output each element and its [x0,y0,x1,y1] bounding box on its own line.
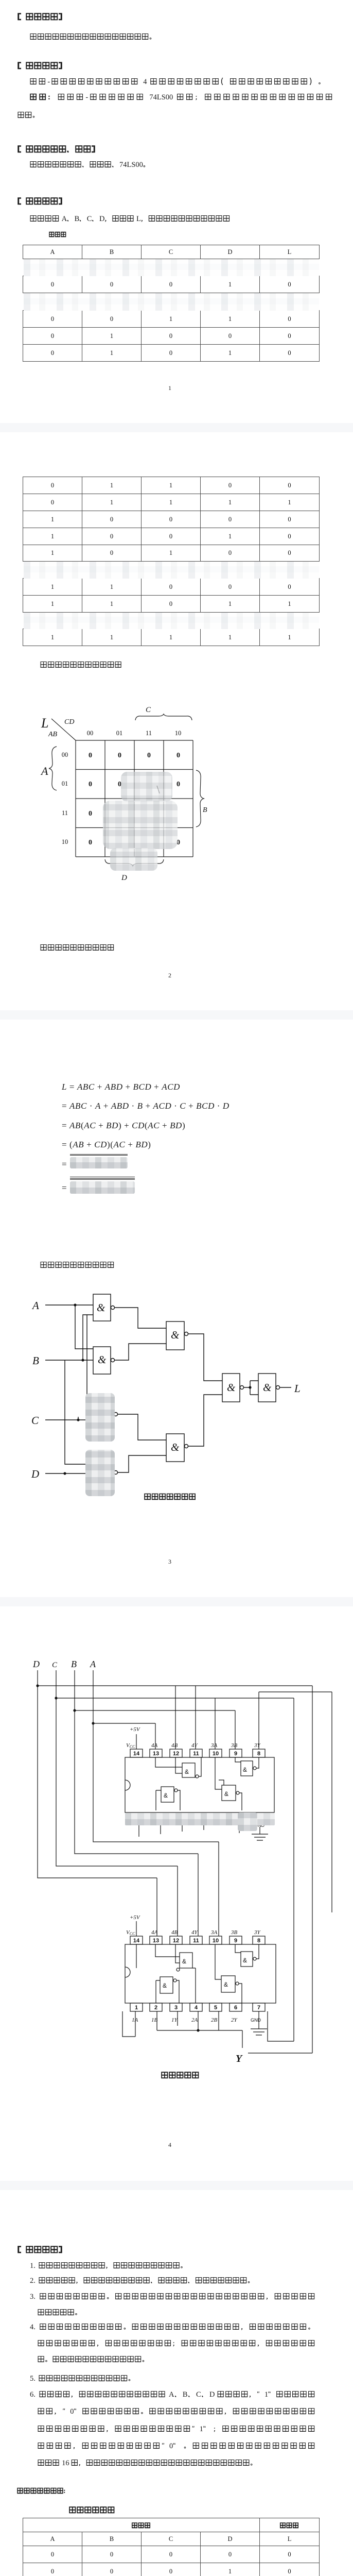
svg-text:&: & [227,1381,236,1394]
svg-text:4B: 4B [171,1742,178,1749]
svg-text:&: & [185,1768,189,1775]
svg-text:00: 00 [87,730,94,737]
svg-text:D: D [121,874,127,882]
svg-text:11: 11 [193,1751,199,1757]
svg-text:1A: 1A [132,2017,138,2023]
svg-text:&: & [164,1792,168,1799]
svg-text:9: 9 [234,1938,237,1944]
svg-text:12: 12 [173,1751,179,1757]
svg-text:4Y: 4Y [191,1742,199,1749]
svg-text:12: 12 [173,1938,179,1944]
svg-text:10: 10 [62,838,68,845]
svg-text:3B: 3B [231,1929,238,1936]
svg-text:2Y: 2Y [231,2017,238,2023]
svg-text:VCC: VCC [126,1929,135,1936]
svg-text:8: 8 [257,1751,260,1757]
svg-text:&: & [98,1353,107,1366]
svg-text:10: 10 [175,730,182,737]
svg-text:1Y: 1Y [171,2017,179,2023]
svg-text:&: & [163,1982,167,1989]
svg-text:+5V: +5V [130,1914,140,1921]
svg-text:2: 2 [154,2005,157,2011]
svg-text:11: 11 [62,809,68,817]
svg-text:4Y: 4Y [191,1929,199,1936]
svg-text:L: L [294,1382,301,1395]
svg-text:11: 11 [193,1938,199,1944]
svg-text:GND: GND [251,2018,261,2023]
svg-text:C: C [146,706,151,714]
svg-text:01: 01 [116,730,123,737]
svg-text:3B: 3B [231,1742,238,1749]
svg-text:2B: 2B [211,2017,218,2023]
svg-text:&: & [224,1981,228,1988]
svg-text:0: 0 [177,781,180,788]
svg-text:B: B [203,806,207,814]
svg-text:4B: 4B [171,1929,178,1936]
svg-text:6: 6 [234,2005,237,2011]
svg-text:0: 0 [89,810,92,818]
svg-text:8: 8 [257,1938,260,1944]
svg-text:&: & [263,1381,272,1394]
svg-text:10: 10 [213,1938,219,1944]
svg-text:4A: 4A [151,1742,158,1749]
svg-text:1B: 1B [151,2017,158,2023]
svg-text:0: 0 [118,752,121,759]
svg-text:&: & [182,1958,186,1965]
svg-text:VCC: VCC [126,1742,135,1749]
svg-text:&: & [243,1957,247,1964]
svg-text:C: C [31,1414,39,1427]
svg-text:3Y: 3Y [254,1929,261,1936]
svg-text:10: 10 [213,1751,219,1757]
svg-text:C: C [52,1661,58,1669]
svg-text:A: A [90,1659,96,1669]
svg-text:9: 9 [234,1751,237,1757]
svg-text:A: A [40,765,48,777]
svg-text:Y: Y [236,2053,243,2064]
svg-text:B: B [71,1659,77,1669]
svg-text:+5V: +5V [130,1726,140,1733]
svg-text:&: & [171,1329,180,1341]
svg-text:0: 0 [89,781,92,788]
svg-text:&: & [97,1301,105,1314]
svg-text:14: 14 [133,1751,140,1757]
svg-text:3A: 3A [210,1929,218,1936]
svg-text:B: B [32,1354,39,1367]
svg-text:A: A [31,1299,39,1312]
svg-text:5: 5 [214,2005,217,2011]
svg-text:0: 0 [89,839,92,846]
svg-text:01: 01 [62,780,68,787]
svg-text:AB: AB [48,731,58,738]
svg-text:3Y: 3Y [254,1742,261,1749]
svg-text:3A: 3A [210,1742,218,1749]
svg-text:7: 7 [257,2005,260,2011]
svg-text:D: D [32,1659,40,1669]
svg-text:&: & [224,1790,228,1798]
svg-text:L: L [41,716,48,731]
svg-text:1: 1 [135,2005,138,2011]
svg-text:&: & [171,1441,180,1453]
svg-text:0: 0 [177,752,180,759]
svg-text:14: 14 [133,1938,140,1944]
svg-text:4: 4 [195,2005,198,2011]
svg-text:2A: 2A [191,2017,198,2023]
svg-text:0: 0 [147,752,151,759]
svg-text:13: 13 [153,1751,159,1757]
svg-text:4A: 4A [151,1929,158,1936]
svg-text:13: 13 [153,1938,159,1944]
svg-text:CD: CD [64,718,74,726]
svg-text:0: 0 [89,752,92,759]
svg-text:D: D [31,1468,39,1480]
svg-text:11: 11 [146,730,152,737]
svg-text:3: 3 [174,2005,178,2011]
svg-text:00: 00 [62,751,68,758]
svg-text:&: & [243,1766,247,1773]
